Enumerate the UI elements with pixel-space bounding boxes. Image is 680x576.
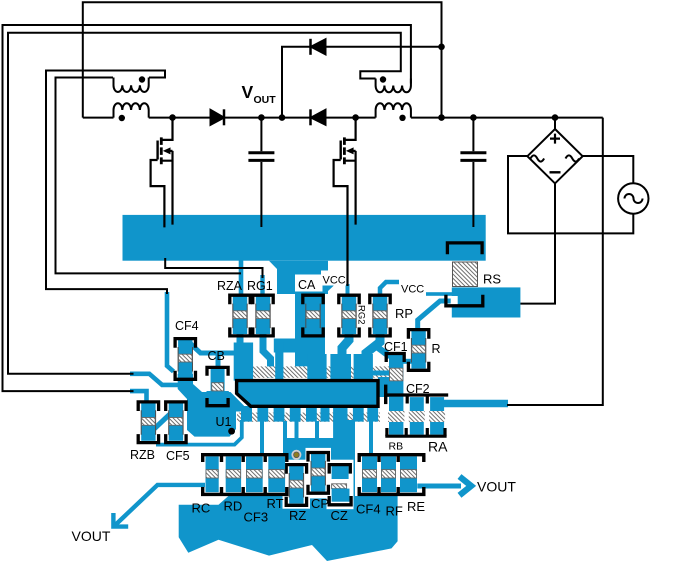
IC top pin pads [234, 343, 253, 381]
IC top hatch strip [237, 366, 390, 377]
svg-text:CF5: CF5 [166, 449, 190, 463]
VOUT arrowhead left [113, 513, 128, 527]
svg-text:U1: U1 [216, 415, 232, 429]
trace CF1 to R pad [402, 359, 413, 364]
cyan between IC and CF1 column (CF2 link) [378, 377, 390, 397]
CF2 mid column [410, 397, 424, 435]
hatch RB body [388, 411, 404, 422]
keepout VCC label [321, 271, 346, 286]
resistor RG1 [253, 295, 273, 336]
keepout CP [306, 448, 332, 499]
capacitor CA [303, 295, 323, 336]
central blob around CB / U1 [178, 374, 246, 437]
group RC/RD/CF3/RT pads [206, 456, 286, 492]
trace CB stub up to bus [216, 352, 221, 368]
thin trace under blob to pin1 [156, 420, 242, 445]
svg-text:RZA: RZA [217, 279, 243, 293]
inductor T1 aux winding [114, 78, 149, 93]
wire VOUT top frame [83, 2, 442, 117]
trace RS block to R pad [418, 301, 453, 328]
diode D2 [311, 109, 326, 125]
resistor RZA [230, 295, 250, 336]
group bracket RB/CF2/RA bottom [385, 428, 446, 436]
trace VCC at RP [380, 282, 399, 294]
wire inner frame T2-aux to CF5 net [8, 33, 401, 374]
stem flare below pads row [274, 339, 325, 353]
bridge rectifier [527, 129, 582, 183]
svg-text:RC: RC [192, 501, 211, 516]
bottom big blob [179, 496, 398, 561]
svg-text:RG2: RG2 [356, 305, 367, 325]
IC bottom hatch strip [237, 413, 380, 422]
svg-text:RF: RF [386, 504, 403, 519]
trace pour to RZA [239, 258, 244, 296]
trace frame to blob (CF5 net) [130, 374, 188, 385]
keepout CA label [295, 275, 323, 292]
inductor T2 aux winding [376, 79, 411, 93]
svg-text:RS: RS [483, 272, 501, 287]
thin traces IC pins down to bottom row [260, 421, 264, 453]
svg-text:CA: CA [298, 278, 316, 292]
svg-text:RG1: RG1 [247, 279, 273, 293]
trace VCC at CA [324, 280, 332, 292]
capacitor C1 [248, 118, 274, 227]
capacitor CF4 top [175, 339, 195, 380]
trace RG1 pad to IC pin [263, 331, 271, 378]
svg-text:RE: RE [407, 499, 425, 514]
svg-text:RT: RT [267, 496, 284, 511]
trace T1-aux vertical to CF4 bottom [167, 292, 174, 372]
resistor R [408, 330, 428, 371]
capacitor CF1 [386, 354, 404, 363]
svg-text:RA: RA [428, 439, 448, 455]
group CF4/RF/RE pads [362, 456, 417, 492]
IC body U1 [237, 381, 378, 407]
trace pour to RG1 (lower part) [260, 275, 264, 296]
resistor RS bottom bracket [446, 295, 483, 306]
trace RP pad down to IC pin [366, 330, 380, 358]
svg-text:RP: RP [395, 306, 413, 321]
inductor T2 main winding [376, 103, 411, 117]
svg-text:V: V [242, 82, 254, 102]
resistor RZB [138, 402, 158, 443]
svg-text:RZ: RZ [289, 508, 306, 523]
group bracket RC/RD/CF3/RT [201, 455, 289, 495]
wire top diode rail [282, 47, 442, 118]
pour stem down to CA / IC fan [269, 261, 328, 294]
hatch RA body [429, 411, 445, 422]
trace stub to RG2 pad [346, 284, 350, 296]
pin 1 dot U1 [228, 428, 235, 435]
trace RG2 pad to IC pin [342, 330, 349, 358]
main copper pour [123, 215, 486, 261]
resistor RS top bracket [447, 243, 482, 254]
VOUT trace left [114, 485, 205, 527]
wire T1-aux right to layout [46, 71, 167, 295]
group bracket CF4/RF/RE [358, 455, 426, 495]
blob behind RZ/CP/CZ [286, 438, 355, 508]
RA column [430, 397, 444, 435]
VOUT trace right [417, 484, 461, 489]
via [291, 450, 301, 460]
group bracket RB/CF2/RA top [385, 385, 449, 405]
svg-text:CF4: CF4 [356, 502, 381, 517]
wire rail to RA sense [507, 118, 603, 405]
keepout RZ [283, 460, 311, 509]
svg-text:RD: RD [224, 499, 243, 514]
capacitor CZ [329, 465, 351, 505]
hatch CF2 body [409, 411, 425, 422]
svg-text:R: R [432, 342, 441, 356]
AC source [618, 183, 648, 213]
svg-text:CF4: CF4 [175, 319, 199, 333]
wire bridge top to rail [554, 118, 556, 129]
svg-text:CF3: CF3 [244, 510, 269, 525]
wire AC loop [508, 156, 633, 233]
svg-text:CP: CP [311, 496, 329, 511]
transistor Q1 [151, 118, 173, 228]
svg-text:VCC: VCC [323, 275, 346, 287]
diode D3 [311, 39, 326, 55]
svg-text:RB: RB [389, 441, 404, 453]
RS lower copper block [452, 287, 521, 317]
resistor RG2 [339, 295, 359, 336]
trace CF4 top to CB / pin1 bus [189, 342, 236, 354]
trace IC area to CF1 hatch [371, 371, 390, 376]
inductor T1 main winding [114, 103, 149, 117]
trace RA to sense wire [444, 400, 508, 408]
svg-text:RZB: RZB [130, 448, 155, 462]
svg-text:CF2: CF2 [406, 382, 430, 396]
capacitor CP [308, 453, 328, 494]
svg-text:VOUT: VOUT [72, 528, 111, 544]
svg-text:CF1: CF1 [384, 340, 408, 354]
wire main VOUT rail [83, 117, 603, 119]
column between RG1 and CA [275, 342, 283, 380]
VOUT arrowhead right [460, 477, 472, 496]
CF1/RB column [389, 352, 403, 435]
resistor RP [370, 295, 390, 336]
svg-text:CB: CB [208, 349, 225, 363]
capacitor CF5 [166, 402, 186, 443]
phase dots [119, 76, 406, 121]
wire T1-aux left to RZA [56, 78, 242, 274]
resistor RZ [286, 465, 306, 506]
svg-text:OUT: OUT [254, 94, 277, 106]
trace VCC to RS block [426, 292, 453, 296]
wire pour to RG1 [165, 258, 262, 278]
wire outer frame T2-aux to RZB [3, 25, 411, 391]
trace RZB to CF5 diagonal [153, 414, 170, 430]
capacitor CB [207, 367, 228, 405]
CB column [211, 368, 225, 392]
svg-text:CZ: CZ [331, 508, 348, 523]
junction dots [169, 44, 558, 121]
resistor RS body [453, 262, 478, 287]
svg-text:VOUT: VOUT [477, 479, 516, 495]
svg-text:VCC: VCC [401, 284, 424, 296]
keepout CZ [327, 460, 354, 510]
trace frame to RZB pad [130, 391, 147, 405]
trace to CF1 top [377, 347, 390, 357]
wire bridge bottom to RS block [520, 183, 555, 303]
transistor Q2 [334, 118, 356, 286]
IC bottom pin pads [241, 406, 252, 422]
trace RZA pad to IC pin [237, 331, 244, 346]
capacitor C2 [460, 118, 486, 227]
diode D1 [211, 109, 225, 125]
